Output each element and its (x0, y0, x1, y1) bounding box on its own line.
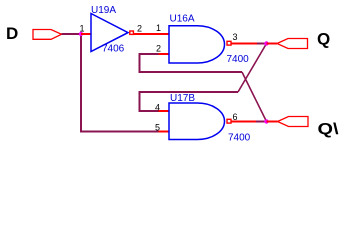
svg-text:Q\: Q\ (318, 121, 340, 138)
pin stub U17B output (231, 121, 256, 123)
bubble U17B output (227, 119, 231, 123)
wire junction to Q connector (267, 43, 278, 45)
junction node Q (264, 41, 268, 45)
svg-text:1: 1 (156, 23, 161, 33)
svg-text:7400: 7400 (227, 54, 250, 65)
nand gate U17B body (169, 103, 225, 140)
connector D (33, 30, 62, 40)
svg-text:3: 3 (233, 32, 238, 42)
svg-text:Q: Q (317, 29, 330, 48)
svg-text:2: 2 (137, 24, 142, 34)
feedback wire from U16A pin2 down and right (140, 54, 243, 72)
connector Q-bar (278, 117, 309, 127)
feedback wire from U17B pin4 up and right (140, 92, 239, 111)
wire D vertical down and to pin 5 (81, 34, 159, 132)
nand gate U16A body (169, 26, 224, 63)
svg-text:7406: 7406 (102, 44, 125, 55)
pin stub U17B pin 5 (159, 131, 170, 133)
wire D connector to junction (62, 33, 82, 35)
pin stub U16A pin 2 (159, 53, 170, 55)
wire U19A output to U16A pin 1 (134, 33, 169, 35)
wire junction to Q-bar connector (267, 121, 278, 123)
wire diagonal to Q junction (238, 44, 267, 93)
junction node D (79, 32, 83, 36)
wire diagonal to Q-bar junction (242, 72, 267, 122)
bubble U16A output (227, 41, 231, 45)
svg-text:2: 2 (156, 44, 161, 54)
wire to Q-bar junction (256, 121, 267, 123)
inverter bubble U19A (130, 31, 134, 34)
svg-text:7400: 7400 (228, 133, 251, 144)
pin stub U19A input (81, 33, 91, 35)
pin stub U16A output (231, 43, 257, 45)
wire to Q junction (257, 43, 267, 45)
svg-text:1: 1 (80, 24, 85, 34)
inverter U19A triangle (91, 14, 128, 52)
pin stub U17B pin 4 (159, 110, 170, 112)
junction node Q-bar (264, 119, 268, 123)
connector Q (277, 39, 308, 49)
svg-text:U19A: U19A (91, 5, 116, 16)
svg-text:U16A: U16A (170, 14, 195, 25)
svg-text:D: D (6, 24, 18, 43)
